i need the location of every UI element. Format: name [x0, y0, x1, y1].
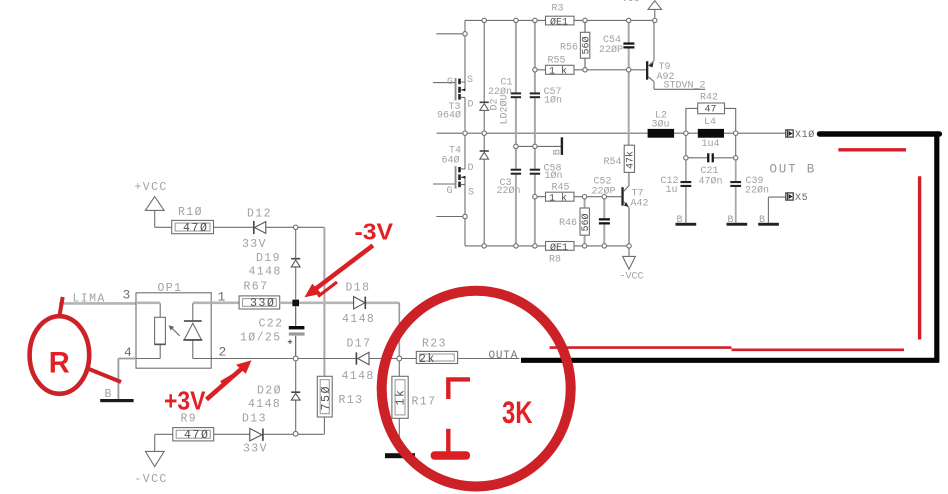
svg-text:R3: R3: [552, 4, 564, 15]
svg-text:1u: 1u: [666, 185, 678, 196]
svg-text:VCC: VCC: [622, 0, 640, 5]
svg-text:S: S: [468, 188, 474, 199]
svg-text:B: B: [552, 149, 563, 155]
inductor L2: [648, 111, 675, 138]
diode D2: [480, 20, 511, 246]
resistor R23: [402, 338, 520, 367]
svg-text:X1Ø: X1Ø: [795, 129, 815, 141]
svg-text:2: 2: [219, 345, 227, 360]
wire D12 rail to corner: [296, 226, 325, 228]
pin 2 wire: [211, 345, 293, 360]
net LIMA input wire pin3: [59, 288, 136, 306]
svg-text:OP1: OP1: [158, 282, 183, 295]
transistor T3: [433, 75, 474, 122]
transistor T4: [433, 146, 474, 199]
capacitor C21: [686, 133, 736, 187]
svg-text:ØE1: ØE1: [550, 242, 568, 254]
wire left rail: [464, 20, 466, 246]
svg-text:D18: D18: [346, 282, 371, 295]
svg-text:OUTA: OUTA: [489, 350, 519, 362]
svg-text:56Ø: 56Ø: [580, 213, 592, 231]
svg-text:64Ø: 64Ø: [442, 155, 460, 167]
svg-text:22Øn: 22Øn: [488, 86, 512, 98]
svg-text:4: 4: [124, 345, 132, 360]
resistor R10: [155, 206, 254, 235]
power +VCC: [135, 181, 168, 227]
black thick line top to X10: [820, 131, 940, 136]
resistor R67: [239, 281, 292, 311]
connector X10: [786, 129, 815, 141]
power -VCC right: [620, 246, 644, 283]
red ground sketch bottom: [446, 429, 450, 452]
svg-text:R: R: [49, 346, 70, 379]
wire top rail VCC: [465, 19, 655, 21]
capacitor C54: [599, 20, 634, 69]
diode D18 4148: [299, 282, 399, 327]
red line above OUTA black line: [550, 348, 904, 350]
svg-text:C22: C22: [259, 318, 284, 331]
svg-text:2k: 2k: [419, 353, 436, 366]
svg-text:L4: L4: [704, 117, 716, 128]
svg-text:1 k: 1 k: [549, 66, 567, 78]
capacitor C22: [240, 306, 305, 358]
black thick vertical right: [934, 132, 939, 362]
wire mid rail to X10: [437, 132, 787, 134]
svg-text:C21: C21: [701, 166, 719, 177]
svg-text:D12: D12: [247, 208, 272, 221]
svg-text:4148: 4148: [342, 370, 375, 383]
SCHEMATIC-GRAY: [433, 0, 816, 282]
svg-text:964Ø: 964Ø: [437, 110, 461, 122]
wire D18 corner down: [398, 303, 400, 359]
pin 4 wire + ground: [100, 345, 136, 402]
svg-text:LIMA: LIMA: [73, 293, 106, 306]
svg-text:B: B: [105, 388, 113, 401]
svg-text:1k: 1k: [395, 388, 408, 405]
svg-text:D13: D13: [242, 413, 267, 426]
svg-text:33Ø: 33Ø: [250, 297, 276, 310]
svg-text:3: 3: [123, 288, 131, 303]
resistor R13: [317, 376, 363, 434]
ground B under C12: [676, 215, 697, 226]
svg-text:3Øu: 3Øu: [652, 119, 670, 131]
inductor L4: [698, 117, 724, 150]
svg-text:75Ø: 75Ø: [320, 385, 333, 411]
svg-text:47: 47: [705, 105, 717, 116]
power VCC top: [622, 0, 662, 20]
capacitor C1: [488, 20, 521, 146]
transistor T9: [646, 20, 706, 91]
svg-text:4148: 4148: [248, 398, 281, 411]
svg-text:22ØP: 22ØP: [599, 44, 623, 56]
power -VCC left: [135, 434, 168, 486]
diode D12 zener 33V: [242, 208, 296, 252]
svg-text:-3V: -3V: [355, 218, 394, 244]
svg-text:47Øn: 47Øn: [699, 176, 723, 188]
svg-text:R1Ø: R1Ø: [178, 206, 203, 219]
svg-text:R17: R17: [412, 396, 437, 409]
capacitor C12: [661, 158, 692, 223]
red tick above ellipse: [60, 297, 63, 316]
transistor T7: [621, 186, 648, 246]
svg-text:R55: R55: [548, 56, 566, 67]
ground B under C39: [727, 215, 748, 226]
resistor R17: [385, 359, 436, 459]
svg-text:D: D: [468, 163, 474, 174]
svg-text:R46: R46: [559, 218, 577, 229]
red ellipse R: [30, 316, 90, 394]
svg-text:47Ø: 47Ø: [183, 222, 209, 235]
svg-text:4148: 4148: [249, 266, 282, 279]
capacitor C39: [730, 158, 769, 223]
diode D20 4148: [248, 359, 300, 434]
LOWER-LEFT BLOCK: [59, 181, 520, 486]
svg-text:1Øn: 1Øn: [544, 95, 562, 107]
svg-text:47k: 47k: [625, 151, 637, 169]
svg-text:1Ø/25: 1Ø/25: [240, 332, 282, 345]
capacitor C52: [592, 177, 616, 246]
svg-text:+3V: +3V: [164, 385, 206, 415]
svg-text:47Ø: 47Ø: [184, 429, 210, 442]
svg-text:22Øn: 22Øn: [497, 185, 521, 197]
svg-text:R56: R56: [560, 43, 578, 54]
capacitor C3: [497, 146, 522, 246]
svg-text:G: G: [447, 77, 453, 88]
diode D19 4148: [249, 227, 301, 299]
svg-text:D17: D17: [347, 338, 372, 351]
pin 1 wire: [211, 290, 239, 305]
svg-text:R42: R42: [700, 93, 718, 104]
svg-text:X5: X5: [795, 193, 808, 204]
resistor R8: [546, 242, 575, 266]
red line ellipse to pin4: [89, 369, 121, 382]
svg-text:STDVN_2: STDVN_2: [664, 81, 706, 92]
svg-text:G: G: [447, 186, 453, 197]
ground B sideways: [516, 137, 563, 155]
wire stub upper-left: [436, 33, 465, 35]
op-amp OP1 box: [136, 282, 211, 368]
svg-text:S: S: [467, 75, 473, 86]
resistor R55: [535, 56, 647, 78]
svg-text:1: 1: [218, 290, 226, 305]
red arrow to pin2 wire: [207, 360, 252, 399]
connector X5: [768, 193, 808, 223]
black thick line from OUTA: [521, 358, 939, 363]
svg-text:1 k: 1 k: [549, 193, 567, 205]
red arrow to junction: [305, 245, 373, 297]
svg-text:R45: R45: [552, 183, 570, 194]
resistor R56: [560, 20, 593, 69]
svg-text:33V: 33V: [243, 443, 268, 456]
svg-text:1u4: 1u4: [702, 139, 720, 150]
node junction square: [292, 300, 299, 307]
svg-text:+VCC: +VCC: [135, 181, 168, 194]
red bracket sketch top: [447, 378, 470, 399]
resistor R45: [535, 183, 622, 205]
resistor R42: [686, 93, 736, 134]
junction dots lower block: [293, 225, 401, 436]
resistor R9: [155, 413, 250, 443]
svg-text:-VCC: -VCC: [135, 473, 168, 486]
svg-text:22Øn: 22Øn: [745, 185, 769, 197]
svg-text:B: B: [728, 215, 734, 226]
svg-text:D19: D19: [256, 252, 281, 265]
svg-text:A42: A42: [631, 199, 649, 210]
svg-text:B: B: [759, 215, 765, 226]
svg-text:-VCC: -VCC: [620, 272, 644, 283]
svg-text:D2Ø: D2Ø: [257, 385, 282, 398]
svg-text:R23: R23: [422, 338, 447, 351]
red line under X10: [838, 148, 906, 151]
svg-text:LD2ØU: LD2ØU: [499, 94, 511, 124]
capacitor C57: [530, 20, 562, 146]
wire vertical 33V rail right: [323, 227, 325, 376]
svg-text:R8: R8: [549, 255, 561, 266]
red big circle 3K: [382, 291, 571, 487]
svg-text:R54: R54: [604, 157, 622, 168]
ground B under X5: [758, 215, 779, 226]
svg-text:R13: R13: [339, 394, 364, 407]
svg-text:1Øn: 1Øn: [545, 170, 563, 182]
svg-text:56Ø: 56Ø: [581, 36, 593, 54]
resistor R3: [546, 4, 575, 29]
svg-text:D: D: [468, 100, 474, 111]
svg-text:33V: 33V: [242, 238, 267, 251]
red vertical line right: [918, 176, 921, 339]
resistor R54: [604, 70, 637, 186]
diode D17 4148: [298, 338, 397, 384]
capacitor C58: [530, 146, 563, 246]
wire stub lower-left: [436, 216, 465, 218]
svg-text:B: B: [677, 215, 683, 226]
resistor R46: [559, 197, 592, 246]
svg-text:3K: 3K: [502, 394, 533, 430]
svg-text:4148: 4148: [342, 313, 375, 326]
junction dots top block: [463, 18, 738, 248]
svg-text:R67: R67: [244, 281, 269, 294]
wire bottom rail: [465, 245, 629, 247]
svg-text:ØE1: ØE1: [550, 16, 568, 28]
svg-text:OUT B: OUT B: [770, 162, 817, 176]
diode D13 zener 33V: [242, 413, 324, 456]
